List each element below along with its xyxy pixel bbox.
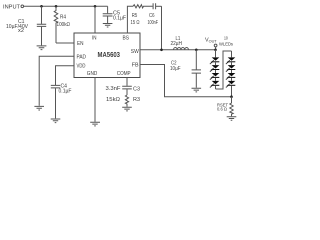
ground (GND pin) bbox=[90, 122, 100, 126]
svg-text:SW: SW bbox=[131, 49, 139, 55]
svg-text:15kΩ: 15kΩ bbox=[106, 97, 120, 103]
svg-text:GND: GND bbox=[87, 71, 98, 77]
svg-text:VDD: VDD bbox=[77, 64, 86, 70]
node: FB junction bbox=[230, 95, 233, 98]
resistor RSET 0.6 ohm bbox=[230, 97, 233, 117]
svg-text:COMP: COMP bbox=[117, 71, 131, 77]
ground (RSET) bbox=[227, 117, 237, 121]
LED D8 bbox=[226, 81, 236, 88]
ground (PAD) bbox=[34, 106, 44, 110]
capacitor C4 bbox=[51, 85, 60, 88]
capacitor C3 bbox=[122, 86, 132, 89]
wire: C2 bottom lead bbox=[195, 74, 197, 88]
LED string 1 (left column) bbox=[210, 57, 220, 87]
wire: GND pin to ground bbox=[94, 78, 96, 122]
op IC U1 MA5603 box bbox=[74, 33, 140, 78]
LED D4 bbox=[210, 81, 220, 88]
resistor R3 15k bbox=[125, 95, 128, 107]
svg-text:100nF: 100nF bbox=[148, 20, 159, 26]
svg-text:C3: C3 bbox=[133, 87, 140, 93]
wire: C4 to ground bbox=[55, 88, 57, 118]
wire: FB feedback run bbox=[140, 65, 232, 97]
capacitor C6 bbox=[153, 3, 156, 9]
wire: PAD to ground bbox=[39, 56, 74, 106]
LED string 2 (right column) bbox=[226, 57, 236, 87]
resistor R5 15 ohm bbox=[133, 5, 153, 8]
ground (R3) bbox=[122, 107, 132, 111]
LED D2 bbox=[210, 65, 220, 72]
svg-text:100kΩ: 100kΩ bbox=[57, 22, 71, 28]
capacitor C2 bbox=[192, 70, 201, 73]
node: C1 tap bbox=[40, 5, 43, 8]
node: SW junction bbox=[160, 49, 163, 52]
LED D3 bbox=[210, 73, 220, 80]
wire: C3 to R3 bbox=[126, 89, 128, 95]
wire: C6 down to SW node bbox=[161, 6, 163, 50]
wire: BS pin up bbox=[127, 6, 133, 33]
node: IN tap bbox=[94, 5, 97, 8]
svg-text:PAD: PAD bbox=[77, 54, 87, 60]
LED D5 bbox=[226, 57, 236, 64]
node: Vout junction bbox=[214, 49, 217, 52]
svg-text:15 Ω: 15 Ω bbox=[131, 20, 140, 26]
wire: series link bottom-up bbox=[216, 51, 232, 89]
LED D6 bbox=[226, 65, 236, 72]
ground (C1) bbox=[37, 46, 47, 50]
svg-text:R5: R5 bbox=[132, 13, 138, 19]
svg-text:FB: FB bbox=[132, 63, 140, 69]
inductor L1 22uH bbox=[174, 48, 189, 50]
wire: SW pin to LED anode rail bbox=[140, 49, 216, 51]
svg-text:22µH: 22µH bbox=[171, 41, 183, 47]
svg-text:MA5603: MA5603 bbox=[98, 52, 121, 59]
node: R4 tap bbox=[55, 5, 58, 8]
wire: R4 to EN pin bbox=[56, 42, 74, 44]
svg-text:IN: IN bbox=[92, 36, 97, 42]
capacitor C5 bbox=[107, 6, 109, 13]
svg-text:10: 10 bbox=[224, 35, 228, 40]
wire: rail to IN pin bbox=[94, 6, 96, 33]
wire: VDD lead bbox=[56, 66, 75, 85]
svg-text:C6: C6 bbox=[149, 13, 155, 19]
svg-text:VOUT: VOUT bbox=[205, 38, 217, 44]
svg-text:R4: R4 bbox=[60, 15, 66, 21]
wire: COMP lead bbox=[126, 78, 128, 86]
LED D7 bbox=[226, 73, 236, 80]
wire: C2 top lead bbox=[195, 50, 197, 70]
svg-text:EN: EN bbox=[77, 41, 84, 47]
node: C2 tap bbox=[195, 49, 198, 52]
ground (C5) bbox=[103, 24, 113, 28]
svg-text:0.1µF: 0.1µF bbox=[59, 89, 72, 95]
resistor R4 100k bbox=[54, 6, 58, 43]
svg-text:WLEDs: WLEDs bbox=[219, 41, 234, 46]
LED D1 bbox=[210, 57, 220, 64]
wire: C1 top lead bbox=[41, 6, 43, 24]
wire: main input rail bbox=[24, 5, 108, 7]
wire: through LED string 2 bbox=[231, 51, 233, 97]
svg-text:INPUT: INPUT bbox=[3, 5, 21, 11]
wire: C1 bottom lead bbox=[41, 27, 43, 46]
svg-text:0.1µF: 0.1µF bbox=[113, 15, 126, 21]
capacitor C1 bbox=[37, 24, 46, 26]
svg-text:3.3nF: 3.3nF bbox=[106, 86, 121, 92]
svg-text:0.6 Ω: 0.6 Ω bbox=[217, 107, 227, 112]
svg-text:BS: BS bbox=[123, 36, 130, 42]
svg-text:10µF: 10µF bbox=[170, 66, 181, 72]
ground (C4) bbox=[51, 119, 61, 123]
ground (C2) bbox=[192, 88, 202, 92]
svg-text:R3: R3 bbox=[133, 97, 140, 103]
svg-text:x2: x2 bbox=[18, 28, 24, 34]
wire: through LED string 1 bbox=[215, 50, 217, 89]
